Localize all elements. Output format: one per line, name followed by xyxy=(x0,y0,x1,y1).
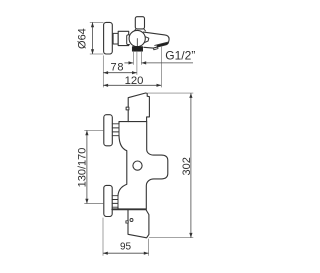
outlet detail square xyxy=(126,221,128,223)
leader G1/2 right line xyxy=(142,62,194,64)
svg-text:Ø64: Ø64 xyxy=(77,28,89,49)
arrowheads 95 xyxy=(103,252,108,255)
svg-text:78: 78 xyxy=(110,62,124,74)
dim line Ø64 xyxy=(92,22,94,54)
ext line outlet right xyxy=(148,239,150,256)
bottom outlet block xyxy=(128,209,149,237)
ext line flange top xyxy=(90,21,104,23)
spout aerator face line xyxy=(155,42,169,45)
ext line upper knob axis xyxy=(84,129,103,131)
dim line 95 xyxy=(103,252,149,254)
upper knob ribs xyxy=(112,124,119,136)
shower outlet centerline xyxy=(136,39,138,47)
svg-text:95: 95 xyxy=(120,242,132,253)
arrowheads 78 xyxy=(103,71,108,74)
arrowheads 120 xyxy=(103,84,108,87)
diverter knob (top) xyxy=(135,17,144,29)
ext line outlet left xyxy=(132,51,134,65)
lower knob (flow handle) xyxy=(104,185,112,216)
body cap circle xyxy=(133,161,142,170)
handle (front view) xyxy=(128,93,149,122)
dim line 302 xyxy=(190,93,192,238)
body outline (front view) xyxy=(118,122,168,210)
ext line knob left xyxy=(102,218,104,256)
cartridge cap tab xyxy=(127,35,130,45)
spout (top view) xyxy=(144,32,170,48)
wall flange (escutcheon, top view) xyxy=(104,22,113,54)
svg-text:G1/2”: G1/2” xyxy=(165,49,195,63)
ext line wall plane xyxy=(102,55,104,87)
dim line 120 xyxy=(103,84,161,86)
arrowheads Ø64 xyxy=(91,22,94,27)
ext line shower outlet center xyxy=(136,51,138,75)
dim line 130/170 xyxy=(86,130,88,203)
aerator slots xyxy=(157,43,167,45)
svg-text:130/170: 130/170 xyxy=(77,148,89,188)
arrowheads 302 xyxy=(189,93,192,98)
handle button detail xyxy=(126,107,129,110)
svg-text:302: 302 xyxy=(181,157,193,175)
lower knob ribs xyxy=(112,196,118,208)
ext line outlet right xyxy=(140,51,142,65)
knob pointer notch xyxy=(144,36,149,43)
ext line outlet bottom xyxy=(149,237,193,239)
ext line flange bottom xyxy=(90,53,104,55)
upper knob (temperature handle) xyxy=(104,115,113,146)
body base thick line xyxy=(112,208,146,210)
diverter knob flare xyxy=(134,29,145,31)
aerator lower step xyxy=(153,47,158,50)
union nut xyxy=(113,33,118,44)
arrowheads 130/170 xyxy=(85,130,88,135)
thermostat knob (top view circle) xyxy=(129,30,145,46)
leader G1/2 left arrow line xyxy=(124,62,133,64)
svg-text:120: 120 xyxy=(125,75,144,87)
outlet detail circle xyxy=(130,219,133,222)
ext line handle top xyxy=(148,92,194,94)
mixer body (top view) xyxy=(118,31,129,45)
dim line 78 xyxy=(103,72,137,74)
ext line lower knob axis xyxy=(84,203,103,205)
ext line spout outlet xyxy=(160,46,162,88)
arrowheads G1/2 xyxy=(129,61,134,64)
shower outlet G1/2 (dark) xyxy=(132,47,142,52)
